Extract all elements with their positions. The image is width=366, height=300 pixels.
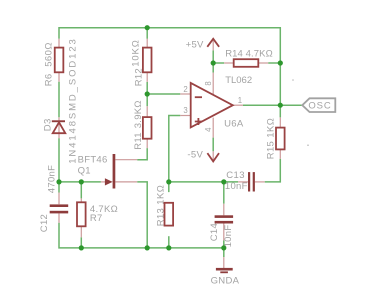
svg-text:TL062: TL062 bbox=[225, 75, 252, 86]
pin lead R14 left bbox=[224, 62, 234, 64]
wire top rail from R6 to top-right corner down through R14 node to R15 bbox=[59, 28, 280, 118]
+5V supply symbol bbox=[207, 39, 219, 47]
pin lead op-amp pin 3 bbox=[180, 115, 190, 117]
resistor R12 body bbox=[143, 48, 152, 73]
wire +5V stem through R14 node to pin 8 bbox=[212, 50, 214, 72]
pin lead R11 bottom bbox=[146, 139, 148, 148]
pin lead Q1 gate bbox=[101, 181, 105, 183]
svg-text:R12: R12 bbox=[133, 68, 144, 86]
svg-text:1KΩ: 1KΩ bbox=[266, 118, 277, 138]
pin lead C12 top bbox=[58, 193, 60, 205]
svg-text:10KΩ: 10KΩ bbox=[131, 39, 142, 67]
resistor R13 body bbox=[165, 203, 174, 226]
junction R12 R11 pin2 node bbox=[145, 91, 150, 96]
pin lead R12 top bbox=[146, 39, 148, 48]
wire R7 bottom bbox=[80, 237, 82, 248]
resistor R7 body bbox=[77, 202, 86, 226]
wire R6 to D3 bbox=[58, 82, 60, 118]
resistor R6 body bbox=[55, 48, 64, 73]
pin lead D3 through body bbox=[58, 117, 60, 138]
resistor R14 body bbox=[234, 59, 259, 67]
svg-text:U6A: U6A bbox=[224, 118, 244, 129]
pin lead -5V supply bbox=[212, 151, 214, 161]
svg-text:C13: C13 bbox=[226, 170, 245, 181]
svg-text:+5V: +5V bbox=[186, 39, 204, 50]
resistor R15 body bbox=[276, 128, 285, 150]
-5V supply symbol bbox=[207, 153, 219, 161]
svg-text:C12: C12 bbox=[39, 214, 50, 232]
net tag OSC bbox=[302, 98, 335, 112]
ground symbol GNDA bbox=[216, 268, 233, 271]
wire R12 to R11 node bbox=[146, 82, 148, 106]
transistor Q1 gate arrowhead bbox=[105, 178, 113, 185]
pin lead R11 top bbox=[146, 106, 148, 117]
transistor Q1 channel bar bbox=[113, 154, 116, 189]
wire C12 bottom to ground rail bbox=[59, 223, 224, 248]
pin lead op-amp pin 2 bbox=[180, 93, 190, 95]
resistor R11 body bbox=[143, 117, 152, 139]
pin lead C14 bottom bbox=[223, 224, 225, 241]
pin lead ground stem bbox=[223, 257, 225, 268]
wire D3 down to gate node bbox=[58, 138, 60, 192]
wire node to op-amp pin 2 bbox=[147, 93, 180, 95]
junction rail Q1 source bbox=[145, 245, 150, 250]
wire gate row bbox=[59, 181, 101, 183]
junction top wire R12 bbox=[145, 25, 150, 30]
svg-text:BFT46: BFT46 bbox=[78, 154, 108, 165]
wire op-amp pin 3 down to source node bbox=[169, 116, 181, 193]
pin lead R15 top bbox=[279, 117, 281, 127]
diode D3 triangle bbox=[53, 122, 66, 133]
capacitor C13 plates bbox=[248, 172, 250, 191]
wire R14 left bbox=[213, 62, 224, 64]
op-amp plus input mark bbox=[195, 118, 202, 125]
svg-text:R13: R13 bbox=[156, 208, 167, 226]
wire R13 bottom bbox=[168, 236, 170, 248]
svg-text:R14 4.7KΩ: R14 4.7KΩ bbox=[225, 48, 273, 59]
svg-text:R6: R6 bbox=[43, 74, 54, 87]
svg-text:R15: R15 bbox=[266, 141, 277, 159]
svg-text:R7: R7 bbox=[90, 213, 103, 224]
junction R14 right node bbox=[278, 60, 283, 65]
wire C13 node down to C14 bbox=[223, 182, 225, 204]
pin lead C14 top bbox=[223, 204, 225, 216]
svg-text:560Ω: 560Ω bbox=[43, 42, 54, 67]
svg-text:2: 2 bbox=[183, 85, 188, 94]
pin lead R7 bottom bbox=[80, 226, 82, 237]
svg-text:R11: R11 bbox=[133, 132, 144, 150]
wire Q1 source down to ground rail bbox=[137, 182, 147, 248]
svg-text:10nF: 10nF bbox=[223, 225, 234, 248]
pin lead R7 top bbox=[80, 198, 82, 202]
pin lead op-amp pin 8 bbox=[212, 73, 214, 95]
svg-text:4: 4 bbox=[204, 127, 213, 132]
wire R7 top bbox=[80, 182, 82, 199]
pin lead R15 bottom bbox=[279, 149, 281, 159]
junction R7 top node bbox=[79, 179, 84, 184]
svg-text:470nF: 470nF bbox=[47, 165, 58, 193]
wire source node row to C13 bbox=[169, 181, 238, 183]
svg-text:8: 8 bbox=[204, 81, 213, 86]
stray grid speck bbox=[292, 79, 294, 81]
wire C14 bottom to ground symbol bbox=[223, 240, 225, 257]
pin lead R14 right bbox=[258, 62, 268, 64]
wire R11 bottom to Q1 drain bbox=[137, 148, 147, 160]
wire output to OSC bbox=[243, 104, 302, 106]
capacitor C12 plates bbox=[50, 204, 68, 207]
op-amp minus input mark bbox=[195, 96, 202, 98]
pin lead op-amp pin 4 bbox=[212, 118, 214, 138]
svg-text:10nF: 10nF bbox=[225, 181, 248, 192]
op-amp U1 triangle bbox=[191, 83, 233, 128]
svg-text:1N4148SMD_SOD123: 1N4148SMD_SOD123 bbox=[68, 37, 79, 164]
pin lead C13 left bbox=[238, 181, 248, 183]
wire pin 4 to -5V bbox=[212, 138, 214, 152]
junction rail ground bbox=[221, 245, 226, 250]
svg-text:1KΩ: 1KΩ bbox=[156, 185, 167, 205]
stray grid speck bbox=[307, 144, 309, 146]
pin lead op-amp pin 1 output bbox=[233, 104, 243, 106]
pin lead C13 right bbox=[255, 181, 265, 183]
diode D3 cathode bar bbox=[52, 120, 65, 122]
wire R14 right bbox=[268, 62, 280, 64]
junction gate node left bbox=[56, 179, 61, 184]
wire top to R12 bbox=[146, 28, 148, 39]
wire R15 bottom to C13 right bbox=[265, 159, 281, 182]
svg-text:3.9KΩ: 3.9KΩ bbox=[133, 100, 144, 128]
pin lead R6 bottom bbox=[58, 72, 60, 81]
svg-text:D3: D3 bbox=[43, 118, 54, 131]
pin lead Q1 drain bbox=[115, 159, 137, 161]
pin lead R6 top bbox=[58, 39, 60, 48]
svg-text:-5V: -5V bbox=[187, 149, 203, 160]
svg-text:C14: C14 bbox=[209, 223, 220, 241]
svg-text:Q1: Q1 bbox=[78, 165, 91, 176]
junction rail R13 bottom bbox=[166, 245, 171, 250]
svg-text:1: 1 bbox=[238, 96, 243, 105]
junction output node bbox=[278, 103, 283, 108]
pin lead R12 bottom bbox=[146, 72, 148, 82]
junction C13 C14 node bbox=[221, 179, 226, 184]
capacitor C14 plates bbox=[215, 215, 234, 218]
pin lead +5V supply bbox=[212, 41, 214, 51]
svg-text:3: 3 bbox=[183, 106, 188, 115]
junction +5V R14 node bbox=[211, 60, 216, 65]
junction rail R7 bottom bbox=[79, 245, 84, 250]
svg-text:GNDA: GNDA bbox=[211, 275, 240, 286]
junction source node R13 top bbox=[166, 179, 171, 184]
pin lead C12 bottom bbox=[58, 213, 60, 222]
pin lead Q1 source bbox=[115, 181, 137, 183]
svg-text:OSC: OSC bbox=[308, 101, 331, 112]
